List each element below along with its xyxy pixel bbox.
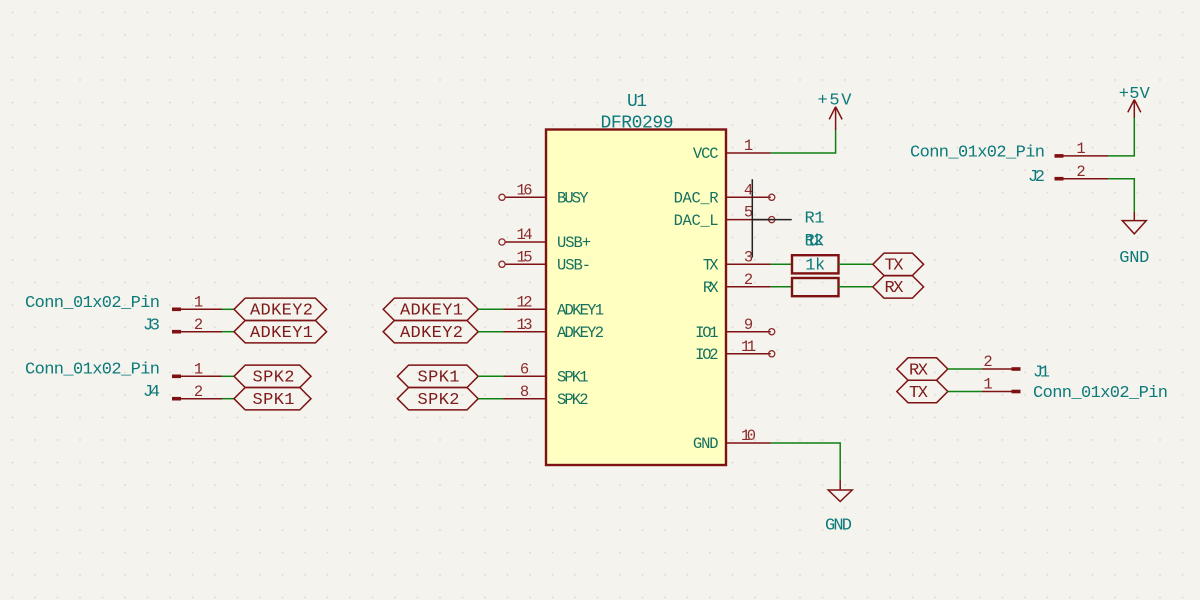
svg-text:RX: RX xyxy=(885,279,904,298)
wire ADKEY1 label to pin 12 xyxy=(478,308,503,310)
svg-text:6: 6 xyxy=(520,360,529,378)
power symbol +5V (top right) xyxy=(1119,85,1151,118)
svg-text:J1: J1 xyxy=(1033,364,1050,383)
svg-text:Conn_01x02_Pin: Conn_01x02_Pin xyxy=(910,143,1045,162)
wire SPK1 label to pin 6 xyxy=(478,375,503,377)
pin 16 BUSY (left) xyxy=(499,181,589,207)
graphic line vertical (DAC area) xyxy=(751,179,753,257)
J3 pin 1 xyxy=(172,293,222,311)
svg-text:1: 1 xyxy=(194,293,203,311)
pin 9 IO1 (right) xyxy=(695,316,775,342)
svg-text:U1: U1 xyxy=(627,92,647,112)
svg-text:8: 8 xyxy=(520,383,529,401)
svg-text:ADKEY1: ADKEY1 xyxy=(250,324,313,343)
svg-text:Conn_01x02_Pin: Conn_01x02_Pin xyxy=(1033,384,1168,403)
J1 pin 2 xyxy=(982,353,1021,371)
svg-text:SPK2: SPK2 xyxy=(557,391,589,409)
pin 11 IO2 (right) xyxy=(695,338,775,364)
wire J4.1 to SPK2 label xyxy=(222,375,234,377)
svg-text:Conn_01x02_Pin: Conn_01x02_Pin xyxy=(25,361,160,380)
global label SPK1 (into pin 6) xyxy=(397,365,478,388)
svg-text:USB-: USB- xyxy=(557,257,591,275)
svg-text:ADKEY2: ADKEY2 xyxy=(400,324,463,343)
J1 pin 1 xyxy=(982,376,1021,394)
global label ADKEY2 (J3) xyxy=(234,298,327,321)
svg-text:R1: R1 xyxy=(805,209,825,228)
svg-text:RX: RX xyxy=(703,279,719,297)
J4 pin 1 xyxy=(172,360,222,378)
svg-text:TX: TX xyxy=(703,257,719,275)
svg-text:ADKEY2: ADKEY2 xyxy=(250,302,313,321)
svg-text:2: 2 xyxy=(194,383,203,401)
svg-text:IO1: IO1 xyxy=(695,324,719,342)
svg-text:14: 14 xyxy=(517,226,533,244)
svg-text:TX: TX xyxy=(885,257,904,276)
global label ADKEY1 (J3) xyxy=(234,321,327,344)
svg-text:J4: J4 xyxy=(143,383,160,402)
svg-text:RX: RX xyxy=(909,361,928,380)
svg-text:SPK2: SPK2 xyxy=(253,369,295,388)
svg-text:ADKEY1: ADKEY1 xyxy=(557,302,604,320)
svg-text:ADKEY1: ADKEY1 xyxy=(400,302,463,321)
pin 14 USB+ (left) xyxy=(499,226,591,252)
pin 12 ADKEY1 (left) xyxy=(504,293,605,319)
wire TX pin3 to R1 xyxy=(771,263,792,265)
J3 pin 2 xyxy=(172,316,222,334)
global label ADKEY1 (into pin 12) xyxy=(383,298,478,321)
svg-text:Conn_01x02_Pin: Conn_01x02_Pin xyxy=(25,294,160,313)
resistor R2 body xyxy=(792,278,839,296)
svg-text:1k: 1k xyxy=(806,232,825,251)
svg-text:GND: GND xyxy=(693,435,719,453)
pin 15 USB- (left) xyxy=(499,248,591,274)
pin 3 TX (right) xyxy=(703,248,771,274)
pin 4 DAC_R (right) xyxy=(674,181,775,207)
svg-text:2: 2 xyxy=(1076,163,1085,181)
svg-text:1: 1 xyxy=(744,137,753,155)
svg-text:1: 1 xyxy=(1076,140,1085,158)
svg-text:USB+: USB+ xyxy=(557,234,591,252)
J2 pin 2 xyxy=(1055,163,1109,181)
svg-text:VCC: VCC xyxy=(693,145,719,163)
wire J4.2 to SPK1 label xyxy=(222,398,234,400)
graphic line horizontal (DAC_L extension) xyxy=(752,219,791,221)
wire J3.2 to ADKEY1 label xyxy=(222,331,234,333)
global label SPK2 (J4) xyxy=(234,365,311,388)
wire ADKEY2 label to pin 13 xyxy=(478,331,503,333)
wire J3.1 to ADKEY2 label xyxy=(222,308,234,310)
wire SPK2 label to pin 8 xyxy=(478,398,503,400)
svg-text:DAC_R: DAC_R xyxy=(674,190,719,208)
wire R1 to TX label xyxy=(839,263,873,265)
svg-text:2: 2 xyxy=(194,316,203,334)
svg-text:GND: GND xyxy=(825,517,852,536)
svg-text:IO2: IO2 xyxy=(695,346,719,364)
svg-text:12: 12 xyxy=(517,293,533,311)
svg-text:13: 13 xyxy=(517,316,533,334)
global label RX (to J1 pin 2) xyxy=(897,358,948,381)
wire TX label to J1.1 xyxy=(948,391,982,393)
ground symbol (top right) xyxy=(1119,212,1149,268)
svg-text:ADKEY2: ADKEY2 xyxy=(557,324,604,342)
svg-text:16: 16 xyxy=(517,181,533,199)
svg-text:J2: J2 xyxy=(1028,168,1045,187)
svg-text:1k: 1k xyxy=(805,256,825,275)
J2 pin 1 xyxy=(1055,140,1109,158)
svg-text:1: 1 xyxy=(983,376,992,394)
global label RX (mid right) xyxy=(873,276,924,299)
pin 10 GND (right) xyxy=(693,427,771,453)
global label SPK1 (J4) xyxy=(234,388,311,411)
svg-text:+5V: +5V xyxy=(1119,85,1151,104)
svg-text:DAC_L: DAC_L xyxy=(674,212,719,230)
svg-text:11: 11 xyxy=(741,338,756,356)
svg-text:SPK1: SPK1 xyxy=(253,391,295,410)
svg-text:9: 9 xyxy=(744,316,753,334)
svg-text:SPK1: SPK1 xyxy=(418,369,460,388)
global label TX (mid right) xyxy=(873,253,924,276)
pin 8 SPK2 (left) xyxy=(504,383,589,409)
ground symbol (bottom middle) xyxy=(825,480,852,536)
pin 6 SPK1 (left) xyxy=(504,360,589,386)
pin 13 ADKEY2 (left) xyxy=(504,316,605,342)
svg-text:2: 2 xyxy=(744,271,753,289)
wire J2.2 to GND xyxy=(1108,179,1134,212)
wire RX label to J1.2 xyxy=(948,368,982,370)
resistor R1 body xyxy=(792,255,839,273)
svg-text:1: 1 xyxy=(194,360,203,378)
wire RX pin2 to R2 xyxy=(771,286,792,288)
wire VCC pin1 to +5V xyxy=(771,130,836,153)
svg-text:SPK1: SPK1 xyxy=(557,369,589,387)
svg-text:TX: TX xyxy=(909,384,928,403)
wire R2 to RX label xyxy=(839,286,873,288)
wire J2.1 to +5V xyxy=(1108,118,1134,156)
svg-text:15: 15 xyxy=(517,248,533,266)
pin 1 VCC (right) xyxy=(693,137,771,163)
J4 pin 2 xyxy=(172,383,222,401)
global label ADKEY2 (into pin 13) xyxy=(383,321,478,344)
svg-text:BUSY: BUSY xyxy=(557,190,589,208)
svg-text:10: 10 xyxy=(741,427,756,445)
wire GND pin10 to GND symbol xyxy=(771,443,840,480)
pin 5 DAC_L (right) xyxy=(674,204,775,230)
svg-text:SPK2: SPK2 xyxy=(418,391,460,410)
pin 2 RX (right) xyxy=(703,271,771,297)
svg-text:GND: GND xyxy=(1119,249,1149,268)
global label TX (to J1 pin 1) xyxy=(897,380,948,403)
svg-text:DFR0299: DFR0299 xyxy=(601,113,674,133)
IC U1 DFR0299 body xyxy=(546,130,726,466)
power symbol +5V (top middle) xyxy=(818,92,853,130)
global label SPK2 (into pin 8) xyxy=(397,388,478,411)
svg-text:+5V: +5V xyxy=(818,92,853,111)
svg-text:J3: J3 xyxy=(143,317,160,336)
svg-text:2: 2 xyxy=(983,353,992,371)
